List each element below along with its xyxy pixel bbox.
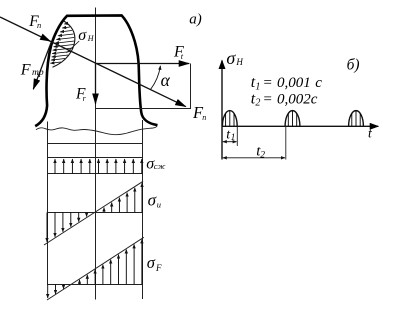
svg-text:σ: σ — [78, 27, 87, 44]
friction force F_tp — [33, 42, 51, 90]
svg-text:F: F — [155, 263, 162, 273]
svg-text:2: 2 — [260, 151, 265, 161]
svg-text:0,002с: 0,002с — [277, 91, 318, 107]
tooth outline — [35, 15, 157, 126]
svg-text:n: n — [202, 113, 206, 122]
F_n mid arrowhead at contact — [40, 34, 51, 42]
svg-text:тр: тр — [32, 68, 44, 78]
svg-text:=: = — [263, 75, 273, 91]
pulse 3 — [349, 111, 364, 127]
sigma_H distributed load arrows — [50, 24, 74, 64]
force F_n line — [0, 17, 186, 107]
t2 dimension line — [223, 157, 285, 159]
stress diagrams: right vertical — [142, 120, 144, 299]
pulse 1 — [222, 111, 237, 127]
svg-text:с: с — [315, 75, 322, 91]
sigma_szh band top — [47, 157, 143, 159]
sigma_u up arrows — [104, 183, 142, 212]
svg-text:а): а) — [189, 12, 202, 28]
svg-text:n: n — [37, 20, 41, 30]
svg-text:σ: σ — [147, 253, 156, 272]
tooth centerline / axis — [95, 8, 97, 300]
sigma_u diagonal — [44, 181, 143, 245]
root break wavy line — [36, 126, 157, 135]
parallelogram right side — [190, 64, 192, 110]
svg-text:сж: сж — [154, 161, 166, 171]
plot b: sigma_H axis — [221, 61, 223, 160]
force F_r — [95, 64, 97, 104]
sigma_F up arrows — [80, 239, 142, 284]
sigma_u baseline — [47, 212, 143, 214]
angle alpha arc — [151, 66, 161, 90]
pulse 2 — [285, 111, 300, 127]
sigma_H contact stress lobe — [53, 21, 75, 67]
sigma_szh arrows — [55, 159, 142, 174]
svg-text:2: 2 — [255, 98, 260, 109]
t1 dimension line — [223, 141, 237, 143]
svg-text:H: H — [235, 57, 243, 67]
svg-text:и: и — [157, 200, 161, 210]
sigma_F diagonal — [47, 237, 144, 300]
sigma_u down arrows — [47, 212, 87, 242]
parallelogram bottom side — [96, 108, 191, 110]
svg-text:σ: σ — [148, 191, 157, 210]
t1 dimension tick — [236, 126, 238, 146]
svg-text:1: 1 — [255, 81, 260, 92]
sigma_F baseline — [47, 284, 143, 286]
sigma_szh band bottom — [47, 173, 143, 175]
t2 dimension tick — [285, 126, 287, 159]
force F_t — [96, 63, 190, 65]
svg-text:σ: σ — [226, 48, 236, 68]
plot b: t axis — [222, 125, 378, 127]
sigma_F down arrows — [48, 285, 64, 299]
stress diagrams: left vertical — [47, 122, 49, 285]
svg-text:=: = — [263, 91, 273, 107]
svg-text:0,001: 0,001 — [277, 75, 311, 91]
svg-text:α: α — [161, 70, 171, 90]
svg-text:F: F — [20, 62, 31, 79]
top horizontal line — [47, 143, 143, 145]
svg-text:б): б) — [347, 56, 360, 73]
sigma_H leader line — [67, 41, 80, 53]
svg-text:1: 1 — [231, 133, 236, 143]
